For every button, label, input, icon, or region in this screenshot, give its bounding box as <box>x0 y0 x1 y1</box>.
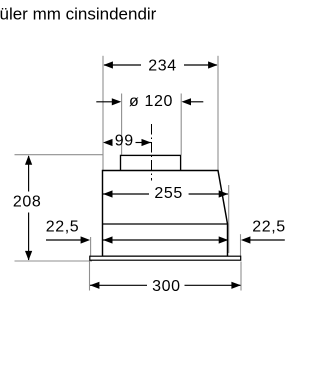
bottom band dimension line <box>103 239 228 241</box>
svg-text:22,5: 22,5 <box>252 218 286 235</box>
arrow 99 left <box>103 139 113 146</box>
dimension 208 line <box>28 156 30 192</box>
arrow 99 right <box>142 139 152 146</box>
dimension 99 line <box>136 142 152 144</box>
dimension o120 right leader <box>191 101 204 103</box>
extension line 300 right <box>240 262 242 291</box>
extension line 234 left <box>102 56 104 171</box>
arrow 234 right <box>208 61 218 68</box>
dimension 300 line <box>90 284 147 286</box>
svg-text:208: 208 <box>13 194 42 211</box>
svg-text:ø 120: ø 120 <box>129 93 173 110</box>
arrow 255 right <box>219 190 229 197</box>
extension line 300 left <box>89 262 91 291</box>
arrow o120 right <box>182 98 192 105</box>
svg-text:255: 255 <box>154 185 183 202</box>
extension line o120 left <box>121 94 123 155</box>
arrow 300 left <box>90 282 100 289</box>
arrow 22,5 right <box>241 236 251 243</box>
extension line 208 top <box>15 154 104 156</box>
dimension 22,5 right leader <box>250 239 285 241</box>
extension line 208 bottom <box>15 260 93 262</box>
svg-text:22,5: 22,5 <box>46 219 80 236</box>
arrow 234 left <box>103 61 113 68</box>
dimension 255 line <box>103 193 149 195</box>
centerline <box>151 124 153 181</box>
arrow 300 right <box>231 282 241 289</box>
extension line 234 right <box>217 56 219 171</box>
bottom plate <box>90 256 241 260</box>
extension line 22,5 right <box>240 234 242 256</box>
dimension 234 line <box>104 64 141 66</box>
arrow band left <box>103 236 113 243</box>
duct collar <box>121 155 181 171</box>
arrow 208 top <box>25 155 32 165</box>
hood body <box>103 171 228 257</box>
dimension 22,5 left leader <box>46 239 82 241</box>
svg-text:üler mm cinsindendir: üler mm cinsindendir <box>0 5 157 24</box>
arrow 208 bottom <box>25 251 32 261</box>
arrow 22,5 left <box>81 236 91 243</box>
body seam line <box>103 223 228 225</box>
extension line 255 right <box>228 185 230 253</box>
extension line 22,5 left <box>90 237 92 256</box>
extension line o120 right <box>180 94 182 155</box>
arrow o120 left <box>112 98 122 105</box>
svg-text:234: 234 <box>148 57 177 74</box>
svg-text:300: 300 <box>152 278 181 295</box>
arrow band right <box>219 236 229 243</box>
svg-text:99: 99 <box>115 133 134 150</box>
dimension o120 left leader <box>96 101 112 103</box>
arrow 255 left <box>103 190 113 197</box>
